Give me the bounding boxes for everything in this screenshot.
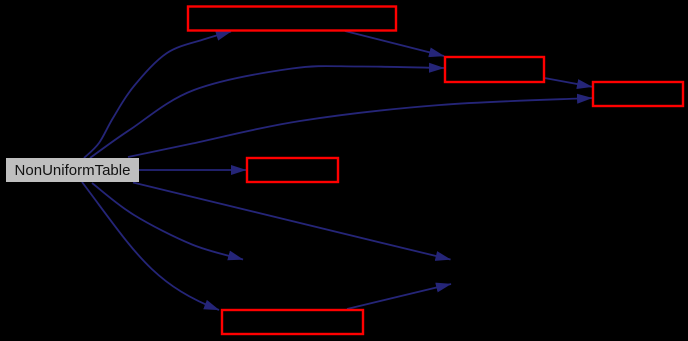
node box4 (red, middle) [247,158,338,182]
edge NonUniformTable->box3 (long straight) [128,98,592,157]
edge NonUniformTable->box1 (top) [84,32,231,159]
edge NonUniformTable->box4 (horizontal) [139,169,246,171]
edge NonUniformTable->hidden-right-upper [133,183,451,260]
edge box1->box2 [345,31,444,56]
node box2 (red, upper middle) [445,57,544,82]
svg-text:NonUniformTable: NonUniformTable [15,162,131,179]
node box3 (red, right) [593,82,683,106]
edge NonUniformTable->box5 (bottom) [82,182,219,310]
edge box5->hidden-right-lower [347,284,451,309]
node box5 (red, bottom) [222,310,363,334]
node box1 (red, top) [188,7,396,31]
edge NonUniformTable->hidden-mid [92,183,243,260]
edge box2->box3 [545,78,593,87]
node NonUniformTable (gray) [6,158,139,182]
edge NonUniformTable->box2 [90,66,444,158]
